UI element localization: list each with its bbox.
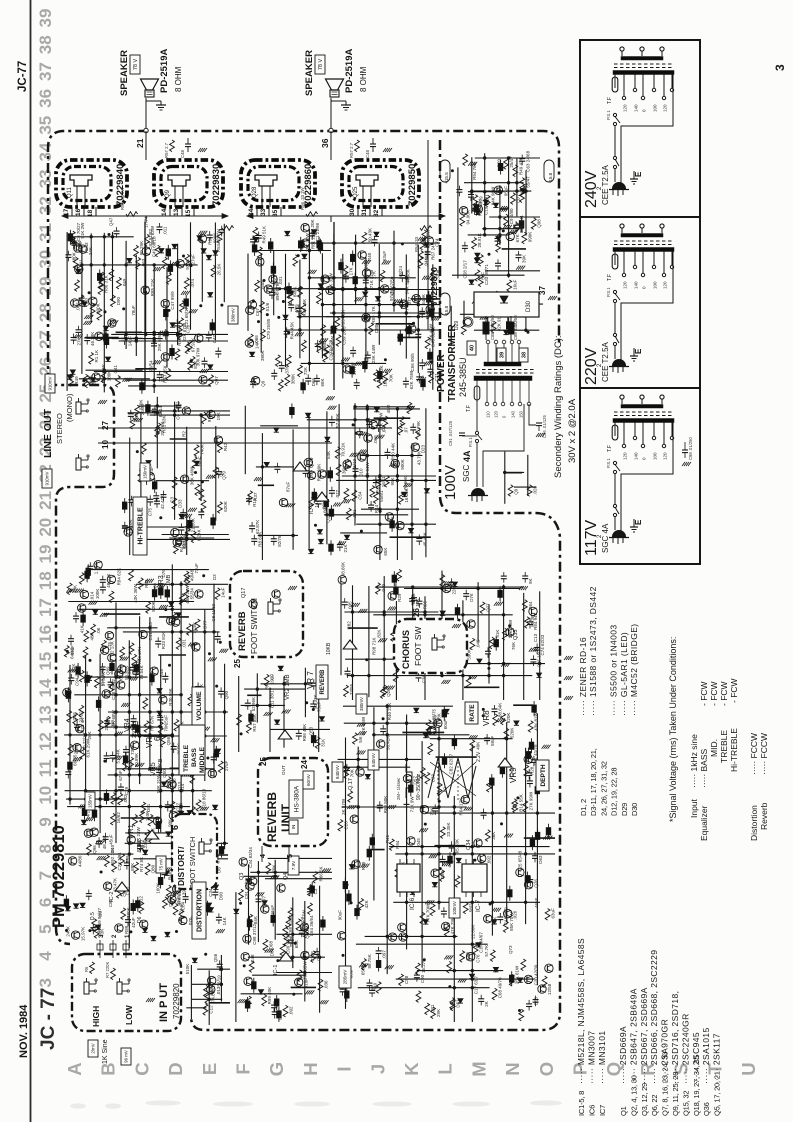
ground	[499, 208, 502, 212]
svg-text:R67 24K: R67 24K	[431, 242, 436, 260]
resistor	[184, 278, 189, 290]
wire	[417, 970, 503, 972]
wire	[425, 408, 427, 557]
wire	[450, 306, 452, 345]
wire	[192, 983, 222, 985]
svg-text:71K 9W: 71K 9W	[410, 796, 415, 813]
node	[256, 687, 259, 690]
level box 910mV	[42, 469, 52, 488]
diode	[349, 865, 354, 869]
wire	[215, 426, 217, 521]
transistor	[431, 869, 439, 877]
transistor	[94, 561, 102, 569]
wire	[128, 385, 211, 387]
resistor	[121, 908, 126, 920]
svg-text:R57 2.7: R57 2.7	[349, 142, 354, 158]
svg-text:Secondery Winding Ratings (DC): Secondery Winding Ratings (DC):	[553, 335, 564, 478]
wire	[471, 744, 473, 1022]
ground	[351, 603, 354, 607]
ground	[190, 820, 193, 824]
svg-text:60mV: 60mV	[306, 773, 311, 786]
resistor	[83, 374, 88, 386]
wire	[241, 704, 285, 706]
node	[431, 315, 434, 318]
svg-text:OUT: OUT	[281, 765, 286, 775]
capacitor	[79, 297, 85, 299]
resistor	[444, 924, 449, 936]
resistor	[420, 912, 425, 924]
svg-text:19: 19	[36, 545, 55, 564]
node	[179, 583, 182, 586]
wire	[214, 223, 216, 341]
wire	[462, 600, 464, 700]
transistor	[199, 376, 207, 384]
resistor	[79, 573, 84, 585]
capacitor	[207, 234, 213, 236]
capacitor	[274, 466, 280, 468]
resistor	[389, 839, 394, 851]
capacitor electrolytic	[299, 241, 303, 248]
svg-text:.040: .040	[381, 583, 386, 592]
node	[135, 337, 138, 340]
diode	[423, 733, 428, 737]
capacitor	[176, 540, 182, 542]
svg-text:P.S.1: P.S.1	[606, 287, 611, 297]
resistor	[344, 488, 349, 500]
capacitor	[65, 771, 71, 773]
capacitor	[218, 690, 224, 692]
svg-text:37: 37	[538, 286, 547, 295]
hybrid power block 70229840 outline	[56, 160, 127, 207]
node	[171, 583, 174, 586]
node	[354, 276, 357, 279]
capacitor	[329, 419, 335, 421]
node	[153, 263, 156, 266]
wire	[244, 688, 305, 690]
capacitor	[163, 332, 169, 334]
resistor	[288, 293, 293, 305]
node	[203, 734, 206, 737]
transistor	[115, 924, 123, 932]
svg-text:33: 33	[36, 169, 55, 188]
node	[482, 708, 485, 711]
transformer core	[614, 411, 674, 413]
node	[321, 287, 324, 290]
capacitor	[130, 666, 136, 668]
resistor	[508, 485, 513, 497]
node	[437, 901, 440, 904]
ground	[216, 929, 219, 933]
resistor	[255, 280, 260, 292]
capacitor	[380, 728, 386, 730]
svg-text:R14 55K: R14 55K	[518, 794, 523, 812]
ground	[393, 299, 396, 303]
resistor	[105, 855, 110, 867]
resistor	[374, 492, 379, 504]
svg-text:14K: 14K	[254, 341, 259, 349]
wire	[417, 629, 452, 631]
svg-text:29: 29	[36, 277, 55, 296]
hybrid power block 70229850 outline	[342, 160, 419, 207]
node	[471, 986, 474, 989]
node	[378, 474, 381, 477]
svg-text:70229830: 70229830	[211, 164, 222, 206]
node	[203, 630, 206, 633]
diode	[197, 236, 202, 240]
resistor	[324, 345, 329, 357]
capacitor	[212, 891, 218, 893]
wire	[367, 849, 385, 851]
node	[437, 852, 440, 855]
resistor	[67, 711, 72, 723]
wire	[348, 627, 378, 629]
svg-text:89K 27W: 89K 27W	[275, 281, 280, 300]
svg-text:IC-6: IC-6	[409, 897, 416, 910]
resistor	[504, 214, 509, 226]
diode	[193, 726, 198, 730]
transistor	[173, 538, 181, 546]
resistor	[447, 961, 452, 973]
resistor	[195, 484, 200, 496]
node	[203, 767, 206, 770]
svg-text:Q3: Q3	[239, 873, 245, 880]
transistor	[131, 741, 139, 749]
svg-text:380K: 380K	[290, 374, 295, 385]
diode	[318, 539, 323, 543]
svg-text:285mV: 285mV	[343, 969, 348, 984]
svg-text:15K: 15K	[383, 379, 388, 387]
node	[90, 235, 93, 238]
capacitor	[315, 343, 321, 345]
node	[114, 693, 117, 696]
resistor	[155, 426, 160, 438]
resistor	[149, 831, 154, 843]
svg-text:C8 11/59: C8 11/59	[211, 603, 216, 621]
REVERB knob box	[316, 665, 328, 699]
resistor	[70, 231, 75, 243]
svg-text:20: 20	[36, 518, 55, 537]
svg-text:14K: 14K	[222, 917, 227, 925]
svg-text:990K: 990K	[96, 303, 101, 314]
node	[424, 823, 427, 826]
svg-text:15uF: 15uF	[163, 715, 168, 726]
capacitor	[463, 593, 469, 595]
node	[471, 943, 474, 946]
capacitor	[419, 362, 425, 364]
svg-text:M: M	[468, 1061, 489, 1076]
node	[332, 288, 335, 291]
transistor	[524, 755, 532, 763]
wire	[87, 569, 209, 571]
primary taps	[614, 423, 616, 437]
resistor	[425, 772, 430, 784]
fuse T.F	[612, 254, 618, 269]
svg-text:VR5: VR5	[150, 762, 157, 776]
wire	[99, 654, 101, 834]
resistor	[321, 325, 326, 337]
svg-text:Q1: Q1	[619, 1106, 628, 1116]
svg-text:R1 1K: R1 1K	[94, 350, 99, 363]
capacitor C88	[483, 322, 489, 334]
resistor	[141, 802, 146, 814]
transistor	[251, 377, 259, 385]
mains plug 100V	[472, 489, 485, 496]
wire switch to plug fuse	[614, 303, 616, 334]
RATE box	[465, 702, 478, 724]
svg-text:32: 32	[36, 196, 55, 215]
transistor	[84, 829, 92, 837]
capacitor	[272, 1011, 278, 1013]
ground	[211, 738, 214, 742]
svg-text:140: 140	[634, 104, 639, 112]
node	[378, 508, 381, 511]
transistor	[420, 805, 428, 813]
ground	[503, 225, 506, 229]
resistor	[248, 334, 253, 346]
wire	[308, 229, 310, 372]
diode	[475, 210, 480, 214]
resistor	[397, 569, 402, 581]
transistor	[176, 260, 184, 268]
resistor	[345, 459, 350, 471]
svg-text:C88 3300/50: C88 3300/50	[490, 315, 495, 340]
svg-text:VR1: VR1	[128, 824, 135, 838]
wire	[506, 722, 508, 922]
resistor	[179, 318, 184, 330]
transistor	[244, 977, 252, 985]
node	[223, 710, 226, 713]
node	[164, 608, 167, 611]
capacitor	[156, 226, 162, 228]
transistor	[71, 931, 79, 939]
transistor	[494, 186, 502, 194]
node	[471, 852, 474, 855]
node	[305, 701, 308, 704]
resistor	[99, 278, 104, 290]
transistor	[420, 654, 428, 662]
wire	[90, 233, 92, 322]
wire	[122, 526, 199, 528]
ground	[417, 377, 420, 381]
ground	[362, 260, 365, 264]
wire	[125, 832, 207, 834]
svg-text:IC7: IC7	[598, 1105, 607, 1116]
wire	[71, 236, 134, 238]
reverb driver circuitry	[303, 396, 436, 560]
transistor	[426, 305, 434, 313]
svg-text:840mV: 840mV	[371, 753, 376, 767]
svg-text:N: N	[502, 1062, 523, 1075]
transistor	[79, 245, 87, 253]
resistor	[297, 970, 302, 982]
transistor	[249, 877, 257, 885]
capacitor	[100, 666, 106, 668]
wire	[201, 854, 228, 856]
capacitor	[131, 718, 137, 720]
resistor	[179, 594, 184, 606]
svg-text:Q32: Q32	[85, 297, 90, 306]
node	[405, 328, 408, 331]
transistor	[245, 339, 253, 347]
wire	[435, 845, 466, 847]
svg-text:12: 12	[36, 732, 55, 751]
svg-text:1.76K: 1.76K	[93, 563, 98, 575]
svg-text:- FCW: - FCW	[709, 681, 719, 706]
capacitor electrolytic	[245, 1001, 249, 1008]
svg-text:840mV: 840mV	[335, 765, 340, 779]
capacitor	[481, 812, 487, 814]
svg-text:D90: D90	[116, 296, 121, 305]
svg-text:81K: 81K	[193, 361, 198, 369]
resistor	[69, 375, 74, 387]
svg-text:620K: 620K	[223, 501, 228, 512]
ground	[357, 723, 360, 727]
resistor	[383, 372, 388, 384]
resistor	[246, 722, 251, 734]
resistor	[473, 943, 478, 955]
node	[471, 901, 474, 904]
node	[179, 630, 182, 633]
capacitor electrolytic	[519, 221, 523, 228]
ground	[441, 680, 444, 684]
ground	[358, 609, 361, 613]
input stage circuitry	[185, 953, 230, 1025]
resistor	[519, 1009, 524, 1021]
wire	[396, 407, 398, 560]
capacitor	[74, 724, 80, 726]
diode	[93, 610, 98, 614]
resistor	[184, 589, 189, 601]
node	[292, 993, 295, 996]
ground	[458, 979, 461, 983]
wire to plug	[614, 346, 616, 360]
speaker SP1 horn symbol	[141, 79, 159, 90]
capacitor electrolytic	[321, 920, 325, 927]
svg-text:21K: 21K	[343, 544, 348, 552]
diode	[363, 292, 368, 296]
chorus switch circuitry	[338, 562, 545, 700]
resistor	[380, 687, 385, 699]
svg-text:37K: 37K	[285, 366, 290, 374]
svg-text:Q82: Q82	[91, 377, 96, 386]
op-amp IC-2b	[115, 882, 129, 891]
ground	[429, 854, 432, 858]
svg-text:C64 36/64: C64 36/64	[309, 915, 314, 936]
resistor	[311, 951, 316, 963]
capacitor	[415, 333, 421, 335]
diode	[493, 967, 498, 971]
resistor	[425, 337, 430, 349]
svg-text:52.96K: 52.96K	[251, 697, 256, 711]
ground	[198, 148, 201, 152]
transistor	[337, 932, 345, 940]
transformer secondary winding	[621, 405, 663, 409]
ground	[543, 836, 546, 840]
node	[332, 287, 335, 290]
resistor	[97, 309, 102, 321]
resistor	[190, 772, 195, 784]
ground	[114, 756, 117, 760]
node	[204, 953, 207, 956]
capacitor electrolytic	[355, 909, 359, 916]
capacitor	[484, 737, 490, 739]
diode	[518, 978, 523, 982]
capacitor electrolytic	[140, 528, 144, 535]
transistor	[478, 854, 486, 862]
svg-text:57.7K: 57.7K	[484, 945, 489, 957]
svg-text:150mV: 150mV	[143, 465, 148, 479]
ground	[472, 207, 475, 211]
svg-text:11: 11	[36, 759, 55, 777]
resistor	[129, 643, 134, 655]
capacitor	[206, 334, 212, 336]
svg-text:27: 27	[36, 330, 55, 349]
capacitor	[90, 927, 96, 929]
diode	[264, 462, 269, 466]
svg-text:29K: 29K	[436, 1009, 441, 1017]
power supply board boundary	[191, 140, 560, 1030]
resistor	[336, 464, 341, 476]
svg-text:-15.8: -15.8	[444, 305, 449, 316]
wire	[192, 624, 194, 902]
fuse holder	[613, 504, 616, 507]
node	[185, 536, 188, 539]
resistor	[173, 542, 178, 554]
capacitor	[114, 230, 120, 232]
transistor	[68, 857, 76, 865]
wire	[267, 288, 406, 290]
node	[410, 454, 413, 457]
svg-text:PD-2519A: PD-2519A	[344, 49, 355, 93]
svg-text:R49 51K: R49 51K	[262, 226, 267, 244]
node	[476, 587, 479, 590]
resistor	[248, 914, 253, 926]
node	[291, 933, 294, 936]
capacitor	[372, 239, 378, 241]
ground	[153, 267, 156, 271]
svg-text:D63: D63	[538, 855, 543, 864]
wire	[326, 316, 441, 318]
node	[128, 693, 131, 696]
diode	[503, 330, 508, 334]
capacitor	[86, 893, 92, 895]
ground	[120, 657, 123, 661]
svg-text:CEE T2.5A: CEE T2.5A	[601, 341, 610, 382]
svg-text:.026: .026	[513, 910, 518, 919]
svg-text:Q76: Q76	[533, 879, 538, 888]
svg-text:88.64K: 88.64K	[498, 703, 503, 717]
capacitor	[440, 858, 446, 860]
capacitor electrolytic	[535, 832, 539, 839]
capacitor	[416, 538, 422, 540]
resistor	[286, 355, 291, 367]
wire	[133, 858, 228, 860]
svg-text:IC-1: IC-1	[273, 965, 279, 975]
transformer secondary terminals	[620, 395, 624, 399]
diode	[82, 302, 87, 306]
capacitor	[398, 301, 404, 303]
transformer secondary winding	[621, 234, 663, 238]
ground	[98, 400, 101, 404]
wire	[127, 332, 179, 334]
svg-text:57.60K: 57.60K	[335, 414, 340, 428]
resistor	[213, 467, 218, 479]
wire	[344, 722, 441, 724]
svg-text:R98 71K: R98 71K	[372, 637, 377, 655]
node	[191, 842, 194, 845]
svg-text:.06: .06	[96, 627, 101, 634]
svg-text:49uF: 49uF	[70, 645, 75, 656]
